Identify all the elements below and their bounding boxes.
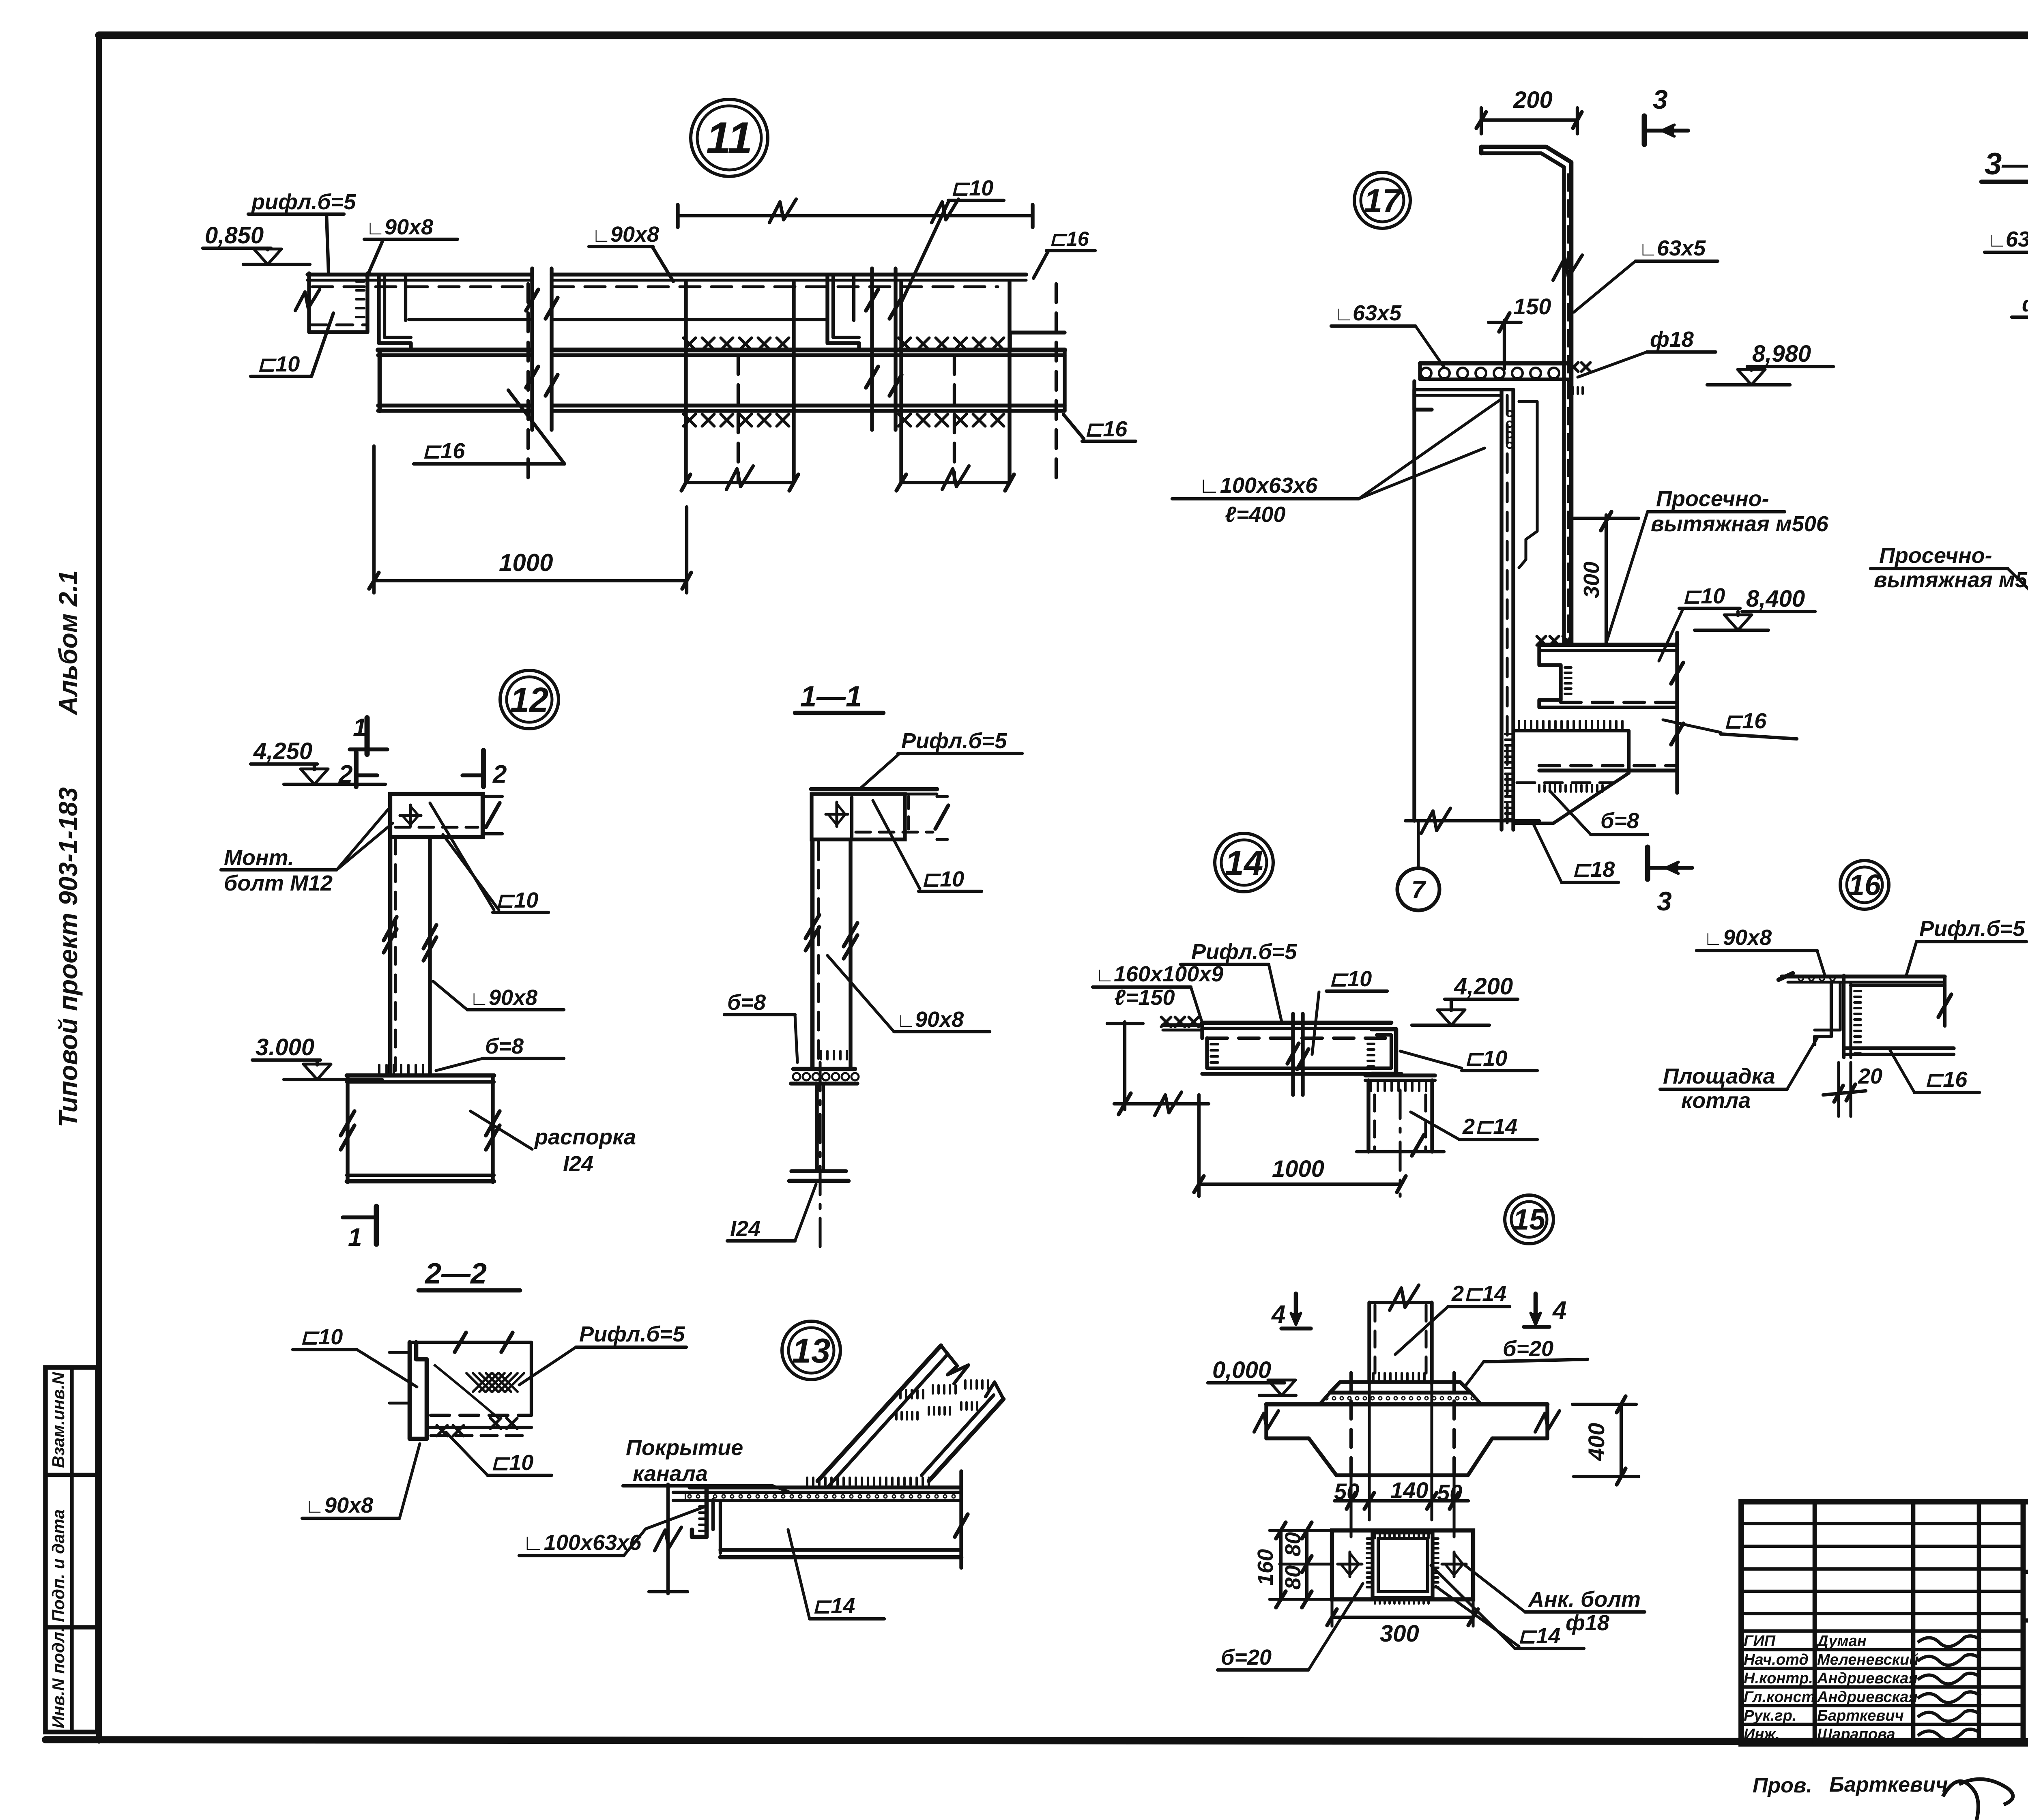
section 1-1 I-beam web [815, 1084, 819, 1171]
detail bubble 17 [1354, 172, 1410, 228]
section 2-2 crosshatch patch (rifled) [466, 1373, 485, 1392]
detail 11 dashed column edge lines above beam [526, 284, 530, 479]
dimension 1000 (detail 14) [1197, 1095, 1201, 1196]
svg-text:⊏16: ⊏16 [422, 439, 465, 463]
detail 14 beam bottom line [1202, 1072, 1401, 1075]
svg-text:Типовой проект 903-1-183: Типовой проект 903-1-183 [54, 787, 83, 1127]
svg-text:1: 1 [353, 714, 367, 742]
svg-text:14: 14 [1225, 844, 1263, 882]
dimension 400 vertical (detail 15) [1573, 1403, 1636, 1406]
svg-text:⊏10: ⊏10 [1329, 967, 1372, 991]
svg-text:7: 7 [1411, 876, 1426, 904]
dimension 300 (detail 15 plan) [1330, 1599, 1333, 1626]
svg-text:3: 3 [1657, 886, 1672, 916]
detail 11 break lines left pair [530, 268, 534, 430]
detail 17 wall inner channel C18 [1500, 390, 1503, 830]
detail 11 bent Z angle no.1 [379, 275, 411, 349]
detail 14 beam top flange [1202, 1021, 1391, 1025]
title block outer box [1741, 1502, 2028, 1744]
detail 17 platform top plate at 8.400 [1539, 643, 1677, 647]
svg-text:∟: ∟ [1639, 238, 1658, 260]
svg-text:12: 12 [510, 681, 549, 719]
detail 16 channel C16 top [1851, 984, 1945, 987]
detail 11 beam left end cap [378, 350, 382, 411]
svg-text:63х5: 63х5 [1657, 236, 1706, 260]
section 1-1 center line [819, 1062, 821, 1247]
svg-text:Барткевич: Барткевич [1829, 1773, 1948, 1796]
svg-text:3.000: 3.000 [256, 1034, 314, 1060]
svg-text:Гл.конст: Гл.конст [1744, 1689, 1815, 1706]
section 1-1 I-beam top flange with rivets [793, 1067, 855, 1071]
svg-text:Просечно-: Просечно- [1656, 487, 1769, 511]
detail 11 break lines right pair [870, 268, 874, 430]
section mark 1 top (detail 12) [365, 718, 370, 754]
svg-text:0,850: 0,850 [205, 222, 264, 249]
svg-text:⊏10: ⊏10 [491, 1451, 533, 1475]
detail bubble 13 [782, 1321, 840, 1380]
detail 11 mid line left span [409, 318, 530, 321]
detail bubble 12 [500, 670, 559, 729]
svg-text:распорка: распорка [534, 1125, 636, 1149]
section mark 3 top (detail 17) [1642, 116, 1647, 144]
svg-text:300: 300 [1579, 562, 1604, 598]
svg-text:0,000: 0,000 [1212, 1357, 1271, 1383]
svg-text:болт М12: болт М12 [224, 871, 333, 895]
svg-text:∟: ∟ [1704, 928, 1723, 949]
svg-text:160: 160 [1253, 1549, 1278, 1586]
svg-text:2: 2 [492, 760, 507, 788]
svg-text:б=20: б=20 [1221, 1645, 1272, 1670]
detail 17 wall inner step lines [1519, 401, 1537, 568]
detail 13 diagonal break zigzag [941, 1346, 969, 1384]
svg-text:⊏16: ⊏16 [1724, 709, 1767, 733]
detail 17 beam C16 at 8.400 [1561, 701, 1677, 704]
detail 13 left dimension line [666, 1484, 670, 1594]
svg-text:4: 4 [1552, 1296, 1566, 1324]
detail bubble 16 [1840, 861, 1889, 909]
svg-text:2⊏14: 2⊏14 [1462, 1114, 1517, 1139]
svg-text:рифл.б=5: рифл.б=5 [251, 190, 356, 214]
svg-text:Андриевская: Андриевская [1817, 1670, 1918, 1687]
svg-text:15: 15 [1513, 1204, 1546, 1236]
section 1-1 I-beam bottom flange [791, 1169, 846, 1173]
svg-text:Н.контр.: Н.контр. [1744, 1670, 1813, 1687]
svg-text:Рифл.б=5: Рифл.б=5 [1191, 940, 1297, 964]
svg-text:⊏10: ⊏10 [951, 176, 993, 200]
detail 11 deck plate (floor checkered plate) [307, 273, 531, 276]
detail 14 right cap channel C10 [1372, 1029, 1396, 1074]
detail 16 bracket (platform of boiler) [1815, 982, 1831, 1045]
svg-text:2⊏14: 2⊏14 [1451, 1281, 1506, 1306]
detail 14 left dim line with break [1123, 1022, 1126, 1110]
detail 15 ground line [1266, 1402, 1547, 1407]
svg-text:1000: 1000 [1272, 1156, 1324, 1182]
svg-text:Подп. и дата: Подп. и дата [49, 1509, 68, 1622]
svg-text:⊏14: ⊏14 [1518, 1624, 1560, 1648]
svg-text:90х8: 90х8 [1723, 925, 1772, 950]
mounting bolt symbol (detail 12) [409, 805, 412, 826]
svg-text:Рифл.б=5: Рифл.б=5 [579, 1322, 685, 1346]
svg-text:Альбом 2.1: Альбом 2.1 [54, 570, 83, 716]
detail 11 beam right end step [1063, 350, 1066, 411]
svg-text:ℓ=400: ℓ=400 [1225, 502, 1286, 527]
svg-text:Взам.инв.N: Взам.инв.N [49, 1371, 68, 1468]
svg-text:1: 1 [348, 1223, 362, 1251]
svg-text:Просечно-: Просечно- [1879, 543, 1992, 568]
detail 11 beam C16 bottom flange band [378, 403, 531, 407]
svg-text:⊏10: ⊏10 [1682, 584, 1725, 608]
section 2-2 angle cross-section [410, 1342, 427, 1439]
svg-text:90х8: 90х8 [324, 1493, 373, 1517]
svg-text:13: 13 [792, 1332, 831, 1370]
svg-text:300: 300 [1380, 1620, 1419, 1647]
svg-text:Думан: Думан [1816, 1633, 1867, 1650]
detail 17 beam right break verticals [1675, 633, 1679, 793]
section 1-1 weld ticks at base [820, 1051, 822, 1059]
detail 11 weld x-row lower left column [683, 414, 696, 426]
svg-text:90х8: 90х8 [489, 985, 537, 1010]
svg-text:⊏10: ⊏10 [1465, 1046, 1507, 1071]
svg-text:Барткевич: Барткевич [1817, 1707, 1904, 1724]
svg-text:80: 80 [1281, 1565, 1305, 1590]
detail 14 top plate with weld row [1163, 1023, 1202, 1027]
svg-text:⊏14: ⊏14 [812, 1594, 855, 1618]
detail 16 deck plate [1782, 974, 1945, 978]
detail 17 bent plate top hook [1481, 147, 1571, 643]
svg-text:Площадка: Площадка [1663, 1064, 1775, 1088]
svg-text:50: 50 [1437, 1480, 1462, 1505]
svg-text:ГИП: ГИП [1744, 1633, 1776, 1650]
svg-text:Рифл.б=5: Рифл.б=5 [901, 729, 1007, 753]
svg-text:∟: ∟ [366, 217, 385, 239]
svg-text:8,980: 8,980 [1752, 341, 1811, 367]
detail 14 column 2C14 below [1365, 1073, 1435, 1077]
detail 17 wall bottom line [1405, 819, 1539, 822]
detail 17 weld x marks beside angle [1569, 363, 1578, 371]
sheet frame bottom border [45, 1740, 2028, 1742]
grid line and bubble 7 (detail 17) [1417, 821, 1420, 868]
svg-text:⊏18: ⊏18 [1572, 857, 1615, 882]
svg-text:ф18: ф18 [1566, 1611, 1609, 1635]
svg-text:∟: ∟ [896, 1010, 915, 1031]
svg-text:90х8: 90х8 [385, 215, 433, 239]
svg-text:⊏10: ⊏10 [257, 352, 300, 376]
svg-text:4,200: 4,200 [1454, 973, 1513, 1000]
dimension 160 80 80 (detail 15 plan) [1270, 1529, 1332, 1532]
svg-text:б=8: б=8 [1600, 809, 1639, 833]
dimension 1000 (detail 11) [372, 446, 376, 593]
detail 15 anchor bolt dashed lines [1349, 1373, 1353, 1475]
detail 11 left channel C10 box [309, 273, 367, 332]
svg-text:Рук.гр.: Рук.гр. [1744, 1707, 1796, 1724]
section 1-1 post [810, 839, 815, 1069]
svg-text:11: 11 [706, 113, 752, 163]
detail 11 bottom column dimension lines [686, 481, 794, 484]
svg-text:∟: ∟ [1334, 303, 1353, 325]
title block signature table verticals [1813, 1502, 1817, 1744]
detail 17 gusset plate with welds [1514, 731, 1629, 823]
svg-text:б=20: б=20 [1503, 1337, 1553, 1361]
svg-text:3: 3 [1653, 84, 1668, 114]
detail 11 right column flanges [899, 282, 903, 483]
detail 16 right break [1943, 977, 1946, 1026]
detail 13 diagonal brace channel [818, 1346, 941, 1481]
svg-text:63х5: 63х5 [1353, 301, 1402, 325]
svg-text:20: 20 [1858, 1064, 1882, 1088]
detail 17 wall left line [1412, 390, 1416, 821]
svg-text:б=8: б=8 [727, 990, 766, 1015]
svg-text:8,400: 8,400 [1746, 586, 1805, 612]
svg-text:Меленевский: Меленевский [1817, 1651, 1918, 1668]
svg-text:ℓ=150: ℓ=150 [1114, 985, 1175, 1010]
svg-text:вытяжная м506: вытяжная м506 [1874, 568, 2028, 592]
detail 15 plan column section [1373, 1532, 1433, 1598]
svg-text:80: 80 [1281, 1532, 1305, 1556]
svg-text:140: 140 [1390, 1477, 1428, 1503]
svg-text:160х100х9: 160х100х9 [1114, 962, 1223, 986]
detail bubble 15 [1505, 1195, 1553, 1244]
detail 12 base weld ticks [378, 1065, 380, 1074]
svg-text:∟: ∟ [1987, 230, 2007, 251]
svg-text:Пров.: Пров. [1753, 1774, 1812, 1797]
detail 17 intermediate line with bolt circles [1507, 411, 1512, 416]
detail 15 plan anchor bolt right [1452, 1552, 1455, 1577]
detail 11 left column flanges [684, 282, 687, 483]
svg-text:⊏16: ⊏16 [1085, 417, 1128, 441]
svg-text:⊏10: ⊏10 [922, 867, 964, 891]
svg-text:2—2: 2—2 [424, 1258, 487, 1290]
detail 15 column weld at base [1372, 1373, 1375, 1380]
svg-text:⊏10: ⊏10 [496, 888, 538, 912]
svg-text:⊏16: ⊏16 [1049, 227, 1089, 250]
detail 16 angle vertical [1842, 975, 1845, 1058]
section mark 3 bottom (detail 17) [1645, 847, 1650, 879]
svg-text:⊏16: ⊏16 [1925, 1067, 1968, 1092]
svg-text:∟: ∟ [1095, 964, 1114, 986]
title block signature squiggles [1918, 1636, 1981, 1646]
detail 11 weld x-row upper right column [898, 338, 911, 350]
detail 17 deck left angle [1414, 381, 1432, 410]
svg-text:∟: ∟ [305, 1496, 324, 1517]
svg-text:∟100х63х6: ∟100х63х6 [1199, 473, 1318, 498]
section 2-2 plate body [410, 1341, 531, 1344]
detail 15 dim extension verticals [1368, 1383, 1371, 1520]
svg-text:Нач.отд: Нач.отд [1744, 1651, 1809, 1668]
sheet frame left border [96, 35, 102, 1741]
detail 13 weld hatch rows on brace [899, 1390, 902, 1398]
svg-text:1—1: 1—1 [800, 680, 862, 713]
detail 13 left angle bracket [692, 1487, 707, 1537]
svg-text:63х5: 63х5 [2006, 227, 2028, 251]
svg-text:б=8: б=8 [485, 1034, 524, 1058]
svg-text:ф18: ф18 [2022, 292, 2028, 316]
sheet frame top border [99, 32, 2028, 39]
svg-text:4: 4 [1271, 1301, 1285, 1329]
section mark 1 bottom (detail 12) [374, 1206, 379, 1244]
svg-text:⊏10: ⊏10 [300, 1325, 343, 1349]
svg-text:1000: 1000 [499, 549, 553, 576]
detail bubble 11 [691, 99, 768, 176]
svg-text:3—3: 3—3 [1985, 147, 2028, 181]
detail 12 top channel C10 (side view) [390, 794, 483, 837]
detail 12 post angle 90x8 (vertical) [388, 837, 393, 1074]
svg-text:17: 17 [1364, 182, 1402, 219]
svg-text:I24: I24 [563, 1152, 593, 1176]
detail bubble 14 [1215, 833, 1273, 892]
svg-text:16: 16 [1848, 869, 1881, 901]
svg-text:Покрытие: Покрытие [626, 1436, 743, 1460]
svg-text:котла: котла [1681, 1088, 1751, 1113]
title block signature table rows [1741, 1522, 2023, 1525]
svg-text:∟: ∟ [470, 988, 489, 1009]
detail 15 column 2C14 [1367, 1303, 1371, 1383]
left margin stamp box outline [45, 1367, 97, 1732]
detail 13 beam C14 web [719, 1500, 722, 1553]
svg-text:150: 150 [1513, 294, 1551, 319]
detail 11 beam C16 top flange band [378, 348, 531, 352]
svg-text:Анк. болт: Анк. болт [1527, 1587, 1641, 1612]
detail 11 bent Z angle no.2 [827, 275, 859, 349]
detail 12 spacer beam I24 [347, 1073, 494, 1078]
svg-text:Инж.: Инж. [1744, 1726, 1780, 1743]
detail 15 foundation outline [1264, 1404, 1268, 1438]
svg-text:4,250: 4,250 [253, 738, 312, 764]
section 1-1 top channel (plan) [811, 787, 937, 792]
detail 17 wall top line [1414, 388, 1513, 391]
detail 13 right break verticals [959, 1471, 963, 1568]
section 2-2 tick marks [389, 1351, 410, 1354]
detail 15 plan base plate outline [1332, 1530, 1473, 1599]
svg-text:90х8: 90х8 [610, 222, 659, 247]
svg-text:200: 200 [1513, 87, 1553, 113]
dimension 20 (detail 16) [1837, 1062, 1840, 1116]
svg-text:I24: I24 [730, 1217, 760, 1241]
detail 14 break marks middle [1291, 1014, 1295, 1095]
dimension 300 vertical (detail 17) [1605, 515, 1608, 643]
detail 11 weld x-row lower right column [898, 414, 911, 426]
section 2-2 curved weld leader [434, 1365, 499, 1419]
svg-text:90х8: 90х8 [915, 1007, 964, 1032]
svg-text:вытяжная м506: вытяжная м506 [1651, 512, 1829, 536]
bolt mark (section 1-1) [835, 802, 838, 826]
detail 17 deck slab at 8.980 [1420, 361, 1568, 366]
svg-text:Шарапова: Шарапова [1817, 1726, 1895, 1743]
detail 11 top dimension line [678, 214, 1033, 217]
detail 15 plan anchor bolt left [1348, 1552, 1351, 1577]
svg-text:канала: канала [633, 1462, 708, 1486]
detail 11 weld x-row upper left column [683, 338, 696, 350]
detail 16 channel C16 bottom [1844, 1046, 1954, 1050]
svg-text:Рифл.б=5: Рифл.б=5 [1919, 916, 2025, 941]
svg-text:400: 400 [1583, 1423, 1609, 1461]
detail 13 platform deck with stipple [690, 1485, 961, 1489]
detail 15 base plate [1330, 1382, 1471, 1393]
svg-text:50: 50 [1334, 1479, 1359, 1504]
detail 15 grout stipple layer [1320, 1393, 1480, 1404]
svg-text:Монт.: Монт. [224, 846, 294, 870]
svg-text:∟: ∟ [592, 225, 611, 246]
detail 14 left end vertical [1200, 1023, 1204, 1038]
svg-text:∟100х63х6: ∟100х63х6 [522, 1530, 642, 1555]
dimension 50 140 50 (detail 15) [1334, 1499, 1468, 1502]
detail 13 beam bottom flange [720, 1548, 961, 1552]
svg-text:Андриевская: Андриевская [1817, 1689, 1918, 1706]
svg-text:Инв.N подл.: Инв.N подл. [49, 1627, 68, 1728]
detail 14 channel box [1205, 1038, 1209, 1068]
svg-text:ф18: ф18 [1650, 327, 1694, 352]
detail 17 platform left bent angle [1539, 645, 1561, 707]
